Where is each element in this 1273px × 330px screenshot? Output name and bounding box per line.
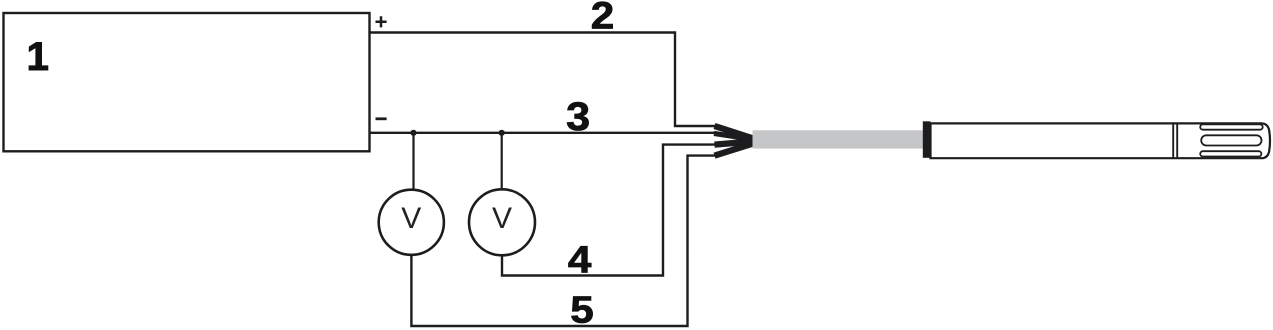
svg-text:V: V — [401, 202, 421, 235]
svg-text:3: 3 — [566, 95, 590, 139]
svg-text:2: 2 — [591, 0, 615, 38]
svg-text:4: 4 — [568, 240, 592, 282]
svg-text:V: V — [492, 202, 512, 235]
svg-text:1: 1 — [27, 35, 49, 79]
svg-text:5: 5 — [570, 290, 594, 330]
